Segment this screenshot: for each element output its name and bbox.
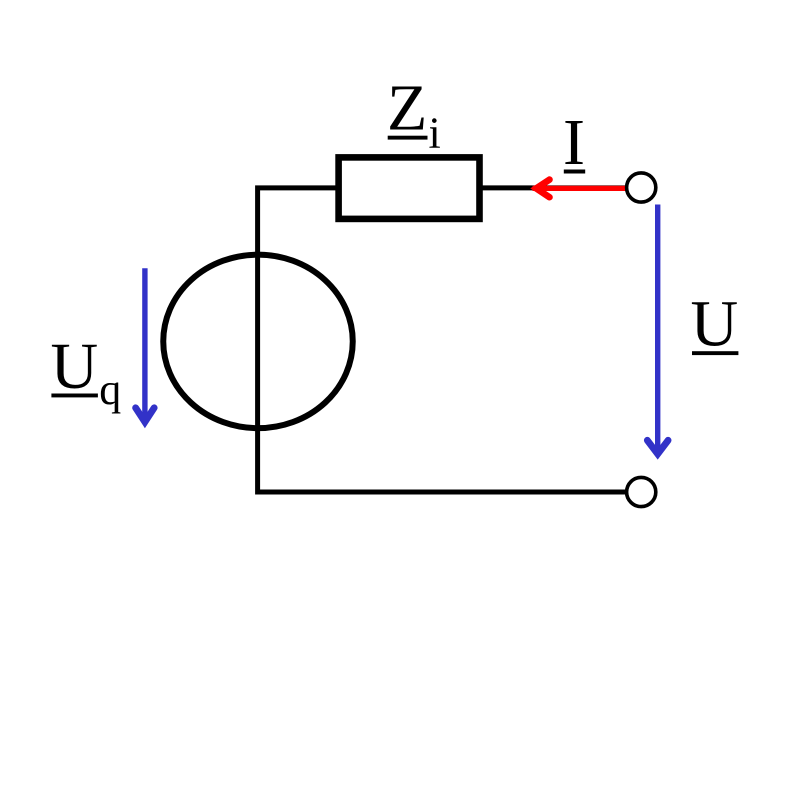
label Z_i	[387, 72, 441, 158]
svg-text:Z: Z	[387, 72, 427, 145]
resistor Z_i (impedance box)	[339, 157, 480, 219]
svg-text:I: I	[563, 106, 585, 179]
svg-text:i: i	[429, 108, 441, 157]
label I	[563, 106, 585, 179]
terminal (top)	[627, 173, 656, 202]
svg-text:q: q	[99, 365, 121, 414]
label U	[691, 288, 739, 361]
svg-text:U: U	[691, 288, 739, 361]
current arrow I (red, pointing left)	[533, 180, 627, 198]
wire: top right segment from Zi to terminal	[482, 185, 628, 190]
label U_q	[51, 330, 122, 414]
voltage arrow U (blue, down, right side)	[647, 205, 668, 455]
voltage arrow U_q (blue, down, left side)	[136, 268, 155, 422]
voltage source U_q (circle)	[163, 255, 353, 429]
terminal (bottom)	[627, 477, 656, 506]
svg-text:U: U	[51, 330, 99, 403]
wire: left loop (top wire, left vertical, bottom wire)	[258, 188, 626, 492]
